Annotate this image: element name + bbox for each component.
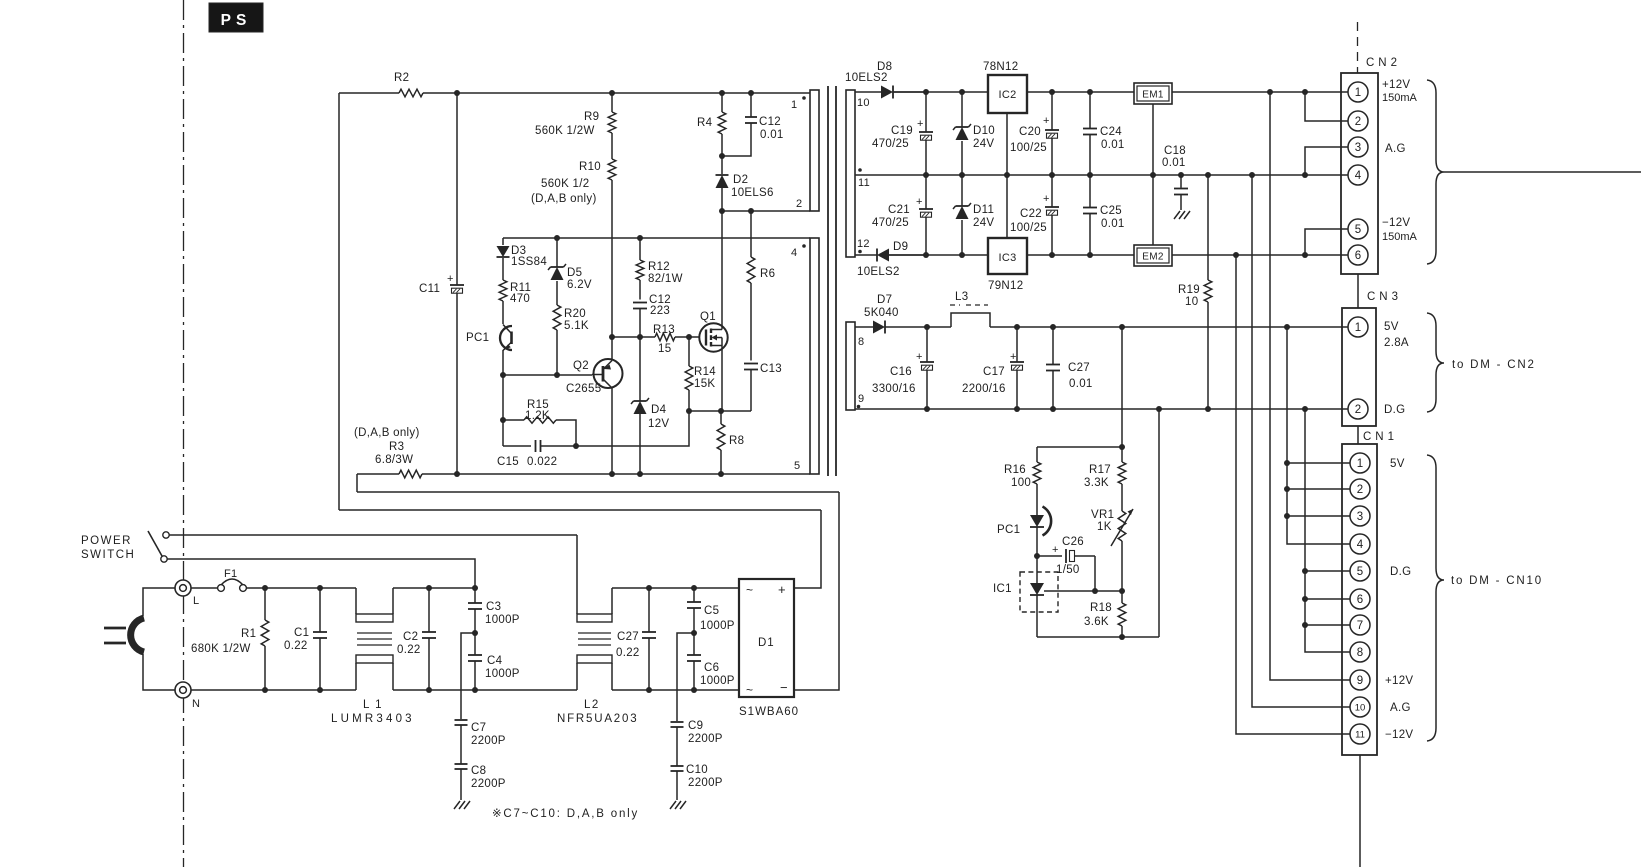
svg-text:8: 8 bbox=[858, 336, 864, 348]
svg-text:R1: R1 bbox=[241, 628, 256, 640]
junction C19 top bbox=[923, 89, 929, 95]
svg-text:IC3: IC3 bbox=[998, 252, 1016, 264]
svg-text:D2: D2 bbox=[733, 174, 748, 186]
svg-text:CN3: CN3 bbox=[1367, 291, 1402, 303]
capacitor C16 bbox=[872, 327, 934, 409]
CN1 pin 10 bbox=[1350, 697, 1370, 717]
svg-text:IC2: IC2 bbox=[998, 89, 1016, 101]
svg-text:D10: D10 bbox=[973, 125, 995, 137]
resistor R12 bbox=[636, 238, 683, 300]
svg-text:L3: L3 bbox=[955, 291, 968, 303]
wire CN2 pin3 tap bbox=[1305, 147, 1349, 175]
zener D11 bbox=[953, 175, 994, 255]
svg-text:R4: R4 bbox=[697, 117, 713, 129]
svg-text:10ELS2: 10ELS2 bbox=[857, 266, 900, 278]
svg-text:R17: R17 bbox=[1089, 464, 1111, 476]
junction R8 bottom bbox=[718, 471, 724, 477]
ferrite bead EM1 bbox=[1134, 83, 1172, 104]
svg-text:9: 9 bbox=[858, 393, 864, 405]
connector CN3 bbox=[1342, 291, 1402, 426]
junction C11 bottom bbox=[454, 471, 460, 477]
svg-text:3: 3 bbox=[1355, 142, 1361, 154]
svg-text:1SS84: 1SS84 bbox=[511, 256, 547, 268]
junction D.G-pin6 bbox=[1302, 596, 1308, 602]
wire C15 to source node bbox=[576, 411, 689, 446]
junction A.G to CN1 bbox=[1249, 172, 1255, 178]
svg-text:5V: 5V bbox=[1384, 321, 1399, 333]
svg-text:82/1W: 82/1W bbox=[648, 273, 683, 285]
svg-text:EM1: EM1 bbox=[1142, 90, 1164, 101]
svg-text:4: 4 bbox=[1355, 170, 1362, 182]
junction R14 bottom bbox=[686, 408, 692, 414]
wire winding-2 line bbox=[722, 210, 810, 212]
svg-text:C25: C25 bbox=[1100, 205, 1122, 217]
wire 5V drop to CN1 pins1-4 bbox=[1287, 327, 1351, 544]
junction C17 top bbox=[1014, 324, 1020, 330]
svg-text:2: 2 bbox=[1357, 484, 1363, 496]
junction C3 node bbox=[472, 585, 478, 591]
svg-text:+: + bbox=[1043, 115, 1049, 127]
junction C20 bottom bbox=[1049, 172, 1055, 178]
opto-LED PC1 bbox=[997, 507, 1051, 557]
svg-text:F1: F1 bbox=[224, 568, 237, 580]
junction R1 bottom bbox=[262, 687, 268, 693]
CN1 pin 2 bbox=[1350, 479, 1370, 499]
junction IC2 ground bbox=[1004, 172, 1010, 178]
diode D3 bbox=[497, 238, 548, 280]
wire PC1 to R15 bbox=[502, 375, 504, 446]
svg-text:11: 11 bbox=[1355, 729, 1365, 740]
wire +12V rail pre-IC2 bbox=[894, 91, 988, 93]
diode D7 bbox=[864, 294, 899, 334]
choke L2 bbox=[557, 535, 638, 725]
ground below C8 bbox=[454, 801, 470, 809]
junction C17 bottom bbox=[1014, 406, 1020, 412]
junction A.G pin3 tap bbox=[1302, 172, 1308, 178]
svg-text:C2: C2 bbox=[403, 631, 418, 643]
wire CN3-CN1 link bbox=[1357, 426, 1359, 444]
svg-text:PC1: PC1 bbox=[466, 332, 489, 344]
svg-text:1000P: 1000P bbox=[485, 668, 520, 680]
capacitor C2 bbox=[397, 588, 436, 690]
label CN2 +12V bbox=[1382, 79, 1418, 104]
power switch bbox=[148, 531, 169, 562]
CN2 pin 6 bbox=[1348, 245, 1368, 265]
bridge rectifier D1 bbox=[739, 579, 799, 718]
junction C21 bottom bbox=[923, 252, 929, 258]
wire DC+ feed line bbox=[339, 509, 821, 511]
svg-text:Q2: Q2 bbox=[573, 360, 589, 372]
svg-text:R18: R18 bbox=[1090, 602, 1112, 614]
wire -12V drop to CN1 pin11 bbox=[1236, 255, 1351, 734]
svg-text:C22: C22 bbox=[1020, 208, 1042, 220]
svg-text:L2: L2 bbox=[584, 699, 600, 711]
wire +12V rail post-IC2 bbox=[1027, 91, 1134, 93]
svg-text:CN1: CN1 bbox=[1363, 431, 1398, 443]
diode D8 bbox=[845, 61, 925, 99]
junction R18 bottom bbox=[1119, 634, 1125, 640]
svg-text:D7: D7 bbox=[877, 294, 892, 306]
CN2 brace bbox=[1427, 80, 1444, 264]
CN2 pin 1 bbox=[1348, 82, 1368, 102]
junction C2 bottom bbox=[426, 687, 432, 693]
svg-text:VR1: VR1 bbox=[1091, 509, 1114, 521]
wire CN2 top dashed stub bbox=[1357, 22, 1359, 73]
junction C27 top bbox=[1050, 324, 1056, 330]
wire +12V drop to CN1 pin9 bbox=[1270, 92, 1351, 680]
wire switch bottom to filter node bbox=[167, 559, 475, 588]
CN2 pin 2 bbox=[1348, 111, 1368, 131]
note C7-C10 bbox=[492, 808, 639, 820]
svg-text:−12V: −12V bbox=[1382, 217, 1410, 229]
label to DM-CN2 bbox=[1452, 359, 1536, 371]
wire Q1 source drop bbox=[721, 346, 723, 412]
svg-text:6.8/3W: 6.8/3W bbox=[375, 454, 413, 466]
junction C25 bottom bbox=[1087, 252, 1093, 258]
svg-text:+: + bbox=[916, 196, 922, 208]
svg-text:L: L bbox=[193, 595, 199, 607]
svg-text:L 1: L 1 bbox=[363, 699, 383, 711]
capacitor C5 bbox=[687, 588, 735, 633]
svg-text:D.G: D.G bbox=[1384, 404, 1405, 416]
junction 5V to CN1 bbox=[1284, 324, 1290, 330]
svg-text:R2: R2 bbox=[394, 72, 409, 84]
wire CN2 pin5 tap bbox=[1305, 229, 1349, 255]
resistor R19 bbox=[1178, 175, 1212, 409]
svg-text:0.22: 0.22 bbox=[284, 640, 308, 652]
svg-text:D11: D11 bbox=[973, 204, 994, 216]
svg-text:470/25: 470/25 bbox=[872, 138, 909, 150]
wire 5V rail to CN3 pin1 bbox=[990, 326, 1349, 328]
junction D5 top bbox=[554, 235, 560, 241]
resistor R4 bbox=[697, 93, 726, 156]
label CN3 D.G bbox=[1384, 404, 1405, 416]
wire feedback bottom line bbox=[1037, 636, 1159, 638]
wire -12V rail to CN2 pin6 bbox=[1172, 254, 1349, 256]
capacitor C13 bbox=[744, 363, 782, 411]
capacitor C26 bbox=[1037, 536, 1095, 576]
capacitor C3 bbox=[468, 588, 520, 633]
svg-text:0.01: 0.01 bbox=[1101, 139, 1125, 151]
wire -12V rail pre-IC3 bbox=[889, 254, 988, 256]
junction R13-R14-gate bbox=[686, 334, 692, 340]
junction PC1 emitter bbox=[500, 372, 506, 378]
svg-text:12: 12 bbox=[857, 238, 870, 250]
capacitor C17 bbox=[962, 327, 1024, 409]
svg-text:R6: R6 bbox=[760, 268, 775, 280]
junction R15 left bbox=[500, 417, 506, 423]
svg-text:R19: R19 bbox=[1178, 284, 1200, 296]
svg-text:8: 8 bbox=[1357, 647, 1363, 659]
junction C22 bottom bbox=[1049, 252, 1055, 258]
svg-text:4: 4 bbox=[1357, 539, 1364, 551]
capacitor C1 bbox=[284, 588, 327, 690]
resistor R14 bbox=[685, 337, 716, 411]
svg-text:PS: PS bbox=[221, 12, 252, 29]
svg-text:+: + bbox=[778, 582, 786, 597]
wire primary top rail bbox=[339, 92, 810, 94]
terminal N bbox=[175, 682, 200, 710]
svg-text:2: 2 bbox=[1355, 404, 1361, 416]
svg-text:A.G: A.G bbox=[1390, 702, 1411, 714]
svg-text:C15: C15 bbox=[497, 456, 519, 468]
inductor L3 bbox=[950, 291, 990, 327]
svg-text:+: + bbox=[916, 351, 922, 363]
wire D1 minus output bbox=[794, 492, 839, 690]
transformer winding 1-2 (primary) bbox=[791, 90, 819, 211]
resistor R10 bbox=[531, 133, 616, 360]
resistor R3 bbox=[354, 427, 422, 478]
wire L to F1 bbox=[191, 587, 218, 589]
svg-text:IC1: IC1 bbox=[993, 583, 1012, 595]
svg-text:10ELS6: 10ELS6 bbox=[731, 187, 774, 199]
svg-text:(D,A,B only): (D,A,B only) bbox=[531, 193, 597, 205]
svg-text:5V: 5V bbox=[1390, 458, 1405, 470]
svg-text:C8: C8 bbox=[471, 765, 486, 777]
PS section label bbox=[209, 3, 263, 32]
junction C4 bottom bbox=[472, 687, 478, 693]
junction R1 top bbox=[262, 585, 268, 591]
junction R4 top bbox=[719, 90, 725, 96]
label CN3 5V bbox=[1384, 321, 1409, 349]
junction C24 bottom bbox=[1087, 172, 1093, 178]
svg-text:C10: C10 bbox=[686, 764, 708, 776]
svg-text:EM2: EM2 bbox=[1142, 252, 1164, 263]
junction D11 bottom bbox=[959, 252, 965, 258]
junction C19 bottom bbox=[923, 172, 929, 178]
junction D4 bottom bbox=[637, 471, 643, 477]
CN3 pin 2 bbox=[1348, 399, 1368, 419]
label CN1 +12V bbox=[1385, 675, 1413, 687]
svg-text:15: 15 bbox=[658, 343, 671, 355]
svg-text:680K 1/2W: 680K 1/2W bbox=[191, 643, 251, 655]
CN2 pin 4 bbox=[1348, 165, 1368, 185]
svg-text:3: 3 bbox=[1357, 511, 1363, 523]
wire C mid to C7 bbox=[461, 633, 475, 719]
capacitor C12 223 bbox=[633, 294, 671, 337]
wire C mid to C9 bbox=[677, 633, 694, 721]
wire plug to L terminal bbox=[143, 588, 175, 616]
label to DM-CN10 bbox=[1451, 575, 1543, 587]
capacitor C12 snubber bbox=[722, 93, 784, 156]
wire winding8 to D7 bbox=[855, 326, 873, 328]
svg-text:~: ~ bbox=[746, 583, 753, 597]
AC plug bbox=[104, 618, 144, 652]
capacitor C9 bbox=[671, 720, 723, 766]
junction C16 bottom bbox=[924, 406, 930, 412]
svg-text:6: 6 bbox=[1357, 594, 1363, 606]
svg-text:LUMR3403: LUMR3403 bbox=[331, 713, 415, 725]
svg-text:R10: R10 bbox=[579, 161, 601, 173]
resistor R11 bbox=[499, 280, 531, 324]
svg-text:150mA: 150mA bbox=[1382, 231, 1418, 243]
wire source line bbox=[689, 410, 751, 412]
svg-text:150mA: 150mA bbox=[1382, 92, 1418, 104]
svg-text:D.G: D.G bbox=[1390, 566, 1411, 578]
wire gate drive line bbox=[612, 336, 699, 338]
svg-text:R16: R16 bbox=[1004, 464, 1026, 476]
junction PC1 cathode bbox=[1034, 553, 1040, 559]
capacitor C7 bbox=[455, 720, 506, 764]
junction C24 top bbox=[1087, 89, 1093, 95]
wire AC bottom rail N to L1 bbox=[191, 689, 356, 691]
svg-text:560K 1/2W: 560K 1/2W bbox=[535, 125, 595, 137]
svg-text:2: 2 bbox=[1355, 116, 1361, 128]
svg-text:10: 10 bbox=[1355, 702, 1366, 713]
junction C2 top bbox=[426, 585, 432, 591]
capacitor C25 bbox=[1083, 175, 1125, 255]
junction -12V pin5 tap bbox=[1302, 252, 1308, 258]
label CN1 -12V bbox=[1385, 729, 1413, 741]
svg-text:R3: R3 bbox=[389, 441, 404, 453]
junction -12V to CN1 bbox=[1233, 252, 1239, 258]
svg-text:D1: D1 bbox=[758, 637, 775, 649]
svg-text:2: 2 bbox=[796, 198, 802, 210]
junction R19 bottom bbox=[1205, 406, 1211, 412]
wire CN2-CN3 link bbox=[1357, 274, 1359, 308]
svg-text:−: − bbox=[780, 680, 788, 695]
svg-text:100/25: 100/25 bbox=[1010, 222, 1047, 234]
svg-text:470/25: 470/25 bbox=[872, 217, 909, 229]
svg-text:5K040: 5K040 bbox=[864, 307, 899, 319]
capacitor C15 bbox=[497, 440, 576, 468]
svg-text:−12V: −12V bbox=[1385, 729, 1413, 741]
svg-text:1: 1 bbox=[791, 99, 797, 111]
capacitor C18 bbox=[1162, 145, 1190, 219]
svg-text:C16: C16 bbox=[890, 366, 912, 378]
wire feedback top line bbox=[1037, 446, 1122, 448]
svg-text:R14: R14 bbox=[694, 366, 716, 378]
svg-text:C4: C4 bbox=[487, 655, 503, 667]
resistor R9 bbox=[535, 93, 616, 137]
resistor R8 bbox=[717, 411, 744, 474]
junction C27 top bbox=[646, 585, 652, 591]
junction R12 top bbox=[637, 235, 643, 241]
svg-text:10: 10 bbox=[1185, 296, 1198, 308]
junction feedback return bbox=[1156, 406, 1162, 412]
label CN1 5V bbox=[1390, 458, 1405, 470]
junction D10 bottom bbox=[959, 172, 965, 178]
shunt regulator IC1 bbox=[993, 556, 1058, 637]
svg-text:2200P: 2200P bbox=[471, 778, 506, 790]
svg-text:NFR5UA203: NFR5UA203 bbox=[557, 713, 638, 725]
CN1 pin 1 bbox=[1350, 453, 1370, 473]
CN1 brace bbox=[1427, 455, 1444, 741]
svg-text:6: 6 bbox=[1355, 250, 1361, 262]
capacitor C19 bbox=[872, 92, 933, 175]
svg-text:C19: C19 bbox=[891, 125, 913, 137]
svg-text:2200P: 2200P bbox=[471, 735, 506, 747]
resistor R17 bbox=[1084, 447, 1126, 511]
svg-text:+: + bbox=[1043, 193, 1049, 205]
junction VR1-R18-ref bbox=[1119, 588, 1125, 594]
capacitor C10 bbox=[671, 764, 723, 800]
svg-text:1K: 1K bbox=[1097, 521, 1112, 533]
transformer core bbox=[828, 86, 836, 476]
CN1 pin 8 bbox=[1350, 642, 1370, 662]
junction C27 bottom bbox=[646, 687, 652, 693]
svg-text:S1WBA60: S1WBA60 bbox=[739, 706, 799, 718]
junction C1 top bbox=[317, 585, 323, 591]
svg-text:5: 5 bbox=[1357, 566, 1363, 578]
transformer winding 4-5 (primary) bbox=[791, 238, 819, 474]
svg-text:~: ~ bbox=[746, 683, 753, 697]
svg-text:C11: C11 bbox=[419, 283, 440, 295]
svg-text:1: 1 bbox=[1357, 458, 1363, 470]
svg-text:4: 4 bbox=[791, 247, 797, 259]
wire L2 to D1 top bbox=[612, 587, 739, 589]
svg-text:5.1K: 5.1K bbox=[564, 320, 589, 332]
junction C20 top bbox=[1049, 89, 1055, 95]
svg-text:R13: R13 bbox=[653, 324, 675, 336]
junction C18 top bbox=[1178, 172, 1184, 178]
junction R20 bottom bbox=[554, 372, 560, 378]
capacitor C6 bbox=[687, 633, 735, 690]
svg-text:470: 470 bbox=[510, 293, 530, 305]
svg-text:0.022: 0.022 bbox=[527, 456, 557, 468]
junction R9 top bbox=[609, 90, 615, 96]
wire DC- return line bbox=[357, 491, 839, 493]
mosfet Q1 bbox=[699, 311, 727, 352]
connector CN1 bbox=[1342, 431, 1398, 755]
junction C3-C4 mid bbox=[472, 630, 478, 636]
wire IC3 ground pin bbox=[1006, 175, 1008, 238]
diode D2 bbox=[716, 156, 774, 211]
CN1 pin 6 bbox=[1350, 589, 1370, 609]
svg-text:A.G: A.G bbox=[1385, 143, 1406, 155]
wire IC2 ground pin bbox=[1006, 113, 1008, 175]
svg-text:C27: C27 bbox=[617, 631, 639, 643]
wire EM1-EM2 ground bbox=[1152, 104, 1154, 245]
label CN1 D.G bbox=[1390, 566, 1411, 578]
svg-text:0.01: 0.01 bbox=[1101, 218, 1125, 230]
label CN2 A.G bbox=[1385, 143, 1406, 155]
terminal L bbox=[175, 580, 199, 607]
junction +12V pin2 tap bbox=[1302, 89, 1308, 95]
svg-text:5: 5 bbox=[794, 460, 800, 472]
svg-text:C3: C3 bbox=[486, 601, 501, 613]
CN1 pin 7 bbox=[1350, 615, 1370, 635]
wire L1 to C4 bottom bbox=[393, 689, 577, 691]
zener D5 bbox=[548, 238, 592, 305]
label CN2 -12V bbox=[1382, 217, 1418, 243]
svg-text:1000P: 1000P bbox=[700, 620, 735, 632]
svg-text:C26: C26 bbox=[1062, 536, 1084, 548]
svg-text:(D,A,B only): (D,A,B only) bbox=[354, 427, 420, 439]
wire CN2 pin2 tap bbox=[1305, 92, 1349, 121]
svg-text:D4: D4 bbox=[651, 404, 667, 416]
junction Q2 emitter bottom bbox=[609, 471, 615, 477]
resistor R16 bbox=[1004, 447, 1041, 511]
wire CN1 bottom stub bbox=[1359, 755, 1361, 867]
svg-text:79N12: 79N12 bbox=[988, 280, 1023, 292]
junction C6 bottom bbox=[691, 687, 697, 693]
wire C26 to ref line bbox=[1094, 556, 1096, 591]
svg-text:C12: C12 bbox=[759, 116, 781, 128]
svg-text:1: 1 bbox=[1355, 87, 1361, 99]
svg-text:0.01: 0.01 bbox=[1069, 378, 1093, 390]
CN3 brace bbox=[1427, 313, 1444, 412]
svg-text:PC1: PC1 bbox=[997, 524, 1020, 536]
wire -12V rail post-IC3 bbox=[1027, 254, 1134, 256]
svg-text:3.6K: 3.6K bbox=[1084, 616, 1109, 628]
CN3 pin 1 bbox=[1348, 317, 1368, 337]
svg-text:R9: R9 bbox=[584, 111, 599, 123]
junction D2-winding2 bbox=[719, 208, 725, 214]
wire IC1 ref line bbox=[1044, 590, 1122, 592]
zener D10 bbox=[953, 92, 995, 175]
wire Q2 base line bbox=[503, 374, 592, 376]
